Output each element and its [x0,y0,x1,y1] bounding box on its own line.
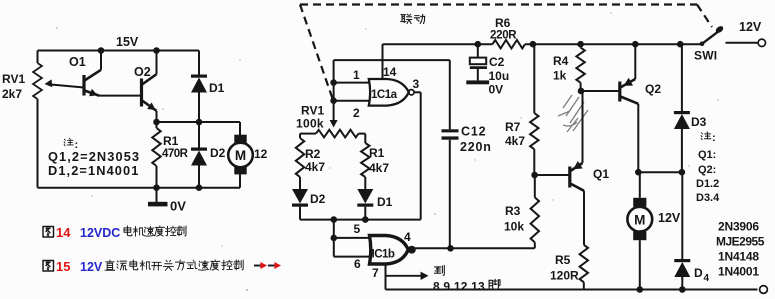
wire RV1 wiper to Q1 base [48,84,84,87]
caption figure 15 [43,261,54,272]
svg-text:470R: 470R [162,148,189,160]
switch SW1 [700,42,705,47]
svg-text:M: M [634,213,645,228]
svg-text:4k7: 4k7 [505,134,525,148]
diode D2 (up) [198,122,200,148]
node D3 top junction [677,41,684,48]
svg-text:15V: 15V [116,35,139,49]
wire junction down to pin5/6 [333,220,335,257]
svg-text:R4: R4 [553,54,569,68]
resistor R6 220R [493,40,526,48]
Q1 emitter arrowhead (points to base) [573,161,583,169]
annotation arrow to pins 8 9 12 13 [386,275,424,277]
diode D3 (freewheel, up) [681,44,683,111]
svg-text:D1: D1 [209,81,225,95]
svg-text:4k7: 4k7 [305,160,325,174]
node pin1 junction [330,79,337,86]
label liandong (ganged) [401,14,412,23]
svg-text:O2: O2 [134,65,151,79]
svg-text:R1: R1 [369,146,385,160]
node D1 bottom junction [196,119,203,126]
potentiometer RV1 2k7 [33,51,42,188]
terminal 0V (open circle) [760,286,768,294]
svg-text:7: 7 [372,266,379,280]
RV1 wiper arrowhead [45,79,53,87]
transistor Q2 (2N3053) [142,74,157,111]
svg-text::: : [712,132,716,144]
svg-text:R7: R7 [505,120,521,134]
svg-text:2: 2 [353,106,360,120]
note text right circuit [701,132,711,140]
svg-text:MJE2955: MJE2955 [716,235,765,249]
svg-text:12V: 12V [80,260,103,274]
ground 0V symbol [156,188,158,202]
potentiometer RV1 100k [316,130,359,138]
wire Q2 collector down to motor node [637,104,639,172]
diode D1 (freewheel, up) [198,51,200,76]
svg-text:8.9.12.13: 8.9.12.13 [433,280,485,294]
svg-text:R5: R5 [555,253,571,267]
transistor Q2 (MJE2955) [620,79,639,104]
svg-text:D1.2: D1.2 [696,178,719,190]
svg-text:10u: 10u [489,69,510,83]
node R1 bottom junction [153,184,160,191]
svg-text:15: 15 [56,259,70,274]
svg-text:120R: 120R [550,269,579,283]
resistor R3 10k [534,242,536,248]
node D3 bottom junction [679,169,686,176]
node motor top junction [635,169,642,176]
wire Q1 collector down to R5 [583,191,585,245]
svg-text:Q2:: Q2: [698,164,716,176]
wire Q2 emitter down to node [156,111,158,122]
resistor R1 4k7 (right) [364,134,366,143]
svg-text:1k: 1k [553,69,567,83]
wire IC1b output to R3 [415,247,535,249]
svg-text:IC1b: IC1b [372,249,395,261]
svg-text:R3: R3 [505,204,521,218]
node D4 bottom junction [679,286,686,293]
svg-text:1C1a: 1C1a [371,89,398,101]
motor M (left) [239,122,241,135]
node Q2 collector junction [153,47,160,54]
svg-text:D3.4: D3.4 [696,192,720,204]
nand gate IC1b [370,236,409,265]
svg-text:5: 5 [354,222,361,236]
svg-text:D1: D1 [377,195,393,209]
svg-text:D2: D2 [210,146,226,160]
wire 15V top rail (left circuit) [38,50,200,52]
wire Q2 emitter to rail [634,44,636,79]
svg-text:12V: 12V [658,211,681,225]
svg-text:1: 1 [353,68,360,82]
svg-text:R1: R1 [163,134,179,148]
capacitor C12 220n [449,60,451,129]
wire vertical input node [333,60,335,103]
wire Q1 base [535,174,570,176]
wire pin14 to rail [382,44,384,79]
svg-text:Q2: Q2 [645,82,661,96]
node motor bottom junction [637,286,644,293]
node emitter junction [153,119,160,126]
node Q1 collector junction [98,47,105,54]
node R4/Q1/Q2 junction [578,88,585,95]
resistor R2 4k7 [299,134,301,138]
wire Q2 collector to rail [156,51,158,75]
wire pin5 input [334,237,370,239]
svg-text:C2: C2 [489,55,505,69]
red arrows annotation [254,265,278,267]
svg-text:4: 4 [704,273,710,284]
resistor R4 1k [576,48,584,83]
svg-text:2N3906: 2N3906 [718,220,759,234]
svg-text:4k7: 4k7 [369,161,389,175]
svg-text:D3: D3 [691,115,707,129]
nand gate IC1a [369,79,409,106]
wire pin1 input [334,82,369,84]
svg-text:SWI: SWI [694,49,717,63]
RV1 wiper arrow [333,103,335,122]
svg-text:RV1: RV1 [2,72,25,86]
node pin5 junction [331,235,338,242]
node pin2 junction [330,97,337,104]
svg-text:M: M [235,148,246,163]
svg-text:RV1: RV1 [301,104,324,118]
transistor Q1 (2N3906) [570,163,584,191]
capacitor C2 10u electrolytic [477,44,479,57]
node D2 bottom junction [196,184,203,191]
dashed gang line to RV1 [300,5,333,101]
svg-text:O1: O1 [69,55,86,69]
wire pin7 to 0V rail [385,264,387,290]
wire VDD rail left of R6 [383,43,493,45]
svg-text:1N4001: 1N4001 [718,265,759,279]
svg-text:D: D [694,266,703,280]
svg-text:Q1,2=2N3053: Q1,2=2N3053 [48,149,140,164]
node diode junction to gate inputs [331,216,338,223]
transistor Q1 (2N3053) [84,70,101,96]
svg-text:1N4148: 1N4148 [718,250,759,264]
Q1 emitter arrowhead [89,89,97,96]
wire motor node to D3/D4 branch [638,171,682,173]
svg-text:12V: 12V [739,20,762,34]
pencil smudge artifact [558,95,588,132]
wire pin6 input [334,256,370,258]
wire emitter node horizontal to motor branch [157,121,241,123]
svg-text:2k7: 2k7 [2,87,22,101]
node C2 junction [475,41,482,48]
Q2 emitter arrowhead (points to base) [624,78,634,86]
node Q1 base junction [531,172,538,179]
Q2 emitter arrowhead [147,102,155,110]
svg-text:6: 6 [354,257,361,271]
resistor R7 4k7 [533,44,535,113]
node R4 top junction [577,41,584,48]
resistor R1 470R [156,122,158,128]
wire Q1 collector to rail [100,51,102,70]
svg-text:12: 12 [254,147,268,161]
svg-text:220n: 220n [460,140,492,154]
svg-text:4: 4 [404,230,411,244]
svg-text:12VDC: 12VDC [80,226,120,240]
svg-text:R6: R6 [495,16,511,30]
svg-text:0V: 0V [170,199,186,214]
svg-text:D1,2=1N4001: D1,2=1N4001 [48,163,139,178]
svg-text:14: 14 [56,225,71,240]
wire VDD rail right of R6 [525,43,702,45]
svg-text:Q1: Q1 [593,167,609,181]
motor M 12V (right) [639,172,641,198]
diode D2 (steering, down) [292,189,308,204]
dashed gang line top [300,3,697,5]
wire Q1 emitter to Q2 base [98,95,142,97]
caption figure 14 [43,227,54,238]
wire pin2 input [334,100,369,102]
svg-text:Q1:: Q1: [698,149,716,161]
node Q2 emitter junction [632,41,639,48]
dashed gang line to SW1 [697,5,712,28]
wire Q1 emitter up [582,91,584,163]
wire Q2 base [581,90,620,92]
svg-text:220R: 220R [490,30,517,42]
wire input node to C12 top link [334,59,450,61]
node C12 bottom junction [447,245,454,252]
wire 0V bottom rail (left circuit) [38,187,241,189]
svg-text:3: 3 [413,77,420,91]
svg-text:D2: D2 [310,192,326,206]
svg-text:14: 14 [383,65,397,79]
wire IC1a output down to diode node [414,91,421,93]
svg-text:C12: C12 [461,125,486,139]
diode D1 (steering, down) [357,189,373,204]
note text left circuit [64,138,73,145]
svg-text:R2: R2 [305,147,321,161]
node D1 junction [362,216,369,223]
svg-text:0V: 0V [489,83,504,97]
scan speckles [56,12,719,291]
wire 0V bottom rail (right circuit) [386,289,758,291]
diode D4 (up) [681,172,683,259]
resistor R5 120R [580,245,588,282]
node R7 top junction [530,41,537,48]
svg-text:100k: 100k [296,117,324,131]
svg-text:10k: 10k [504,220,524,234]
